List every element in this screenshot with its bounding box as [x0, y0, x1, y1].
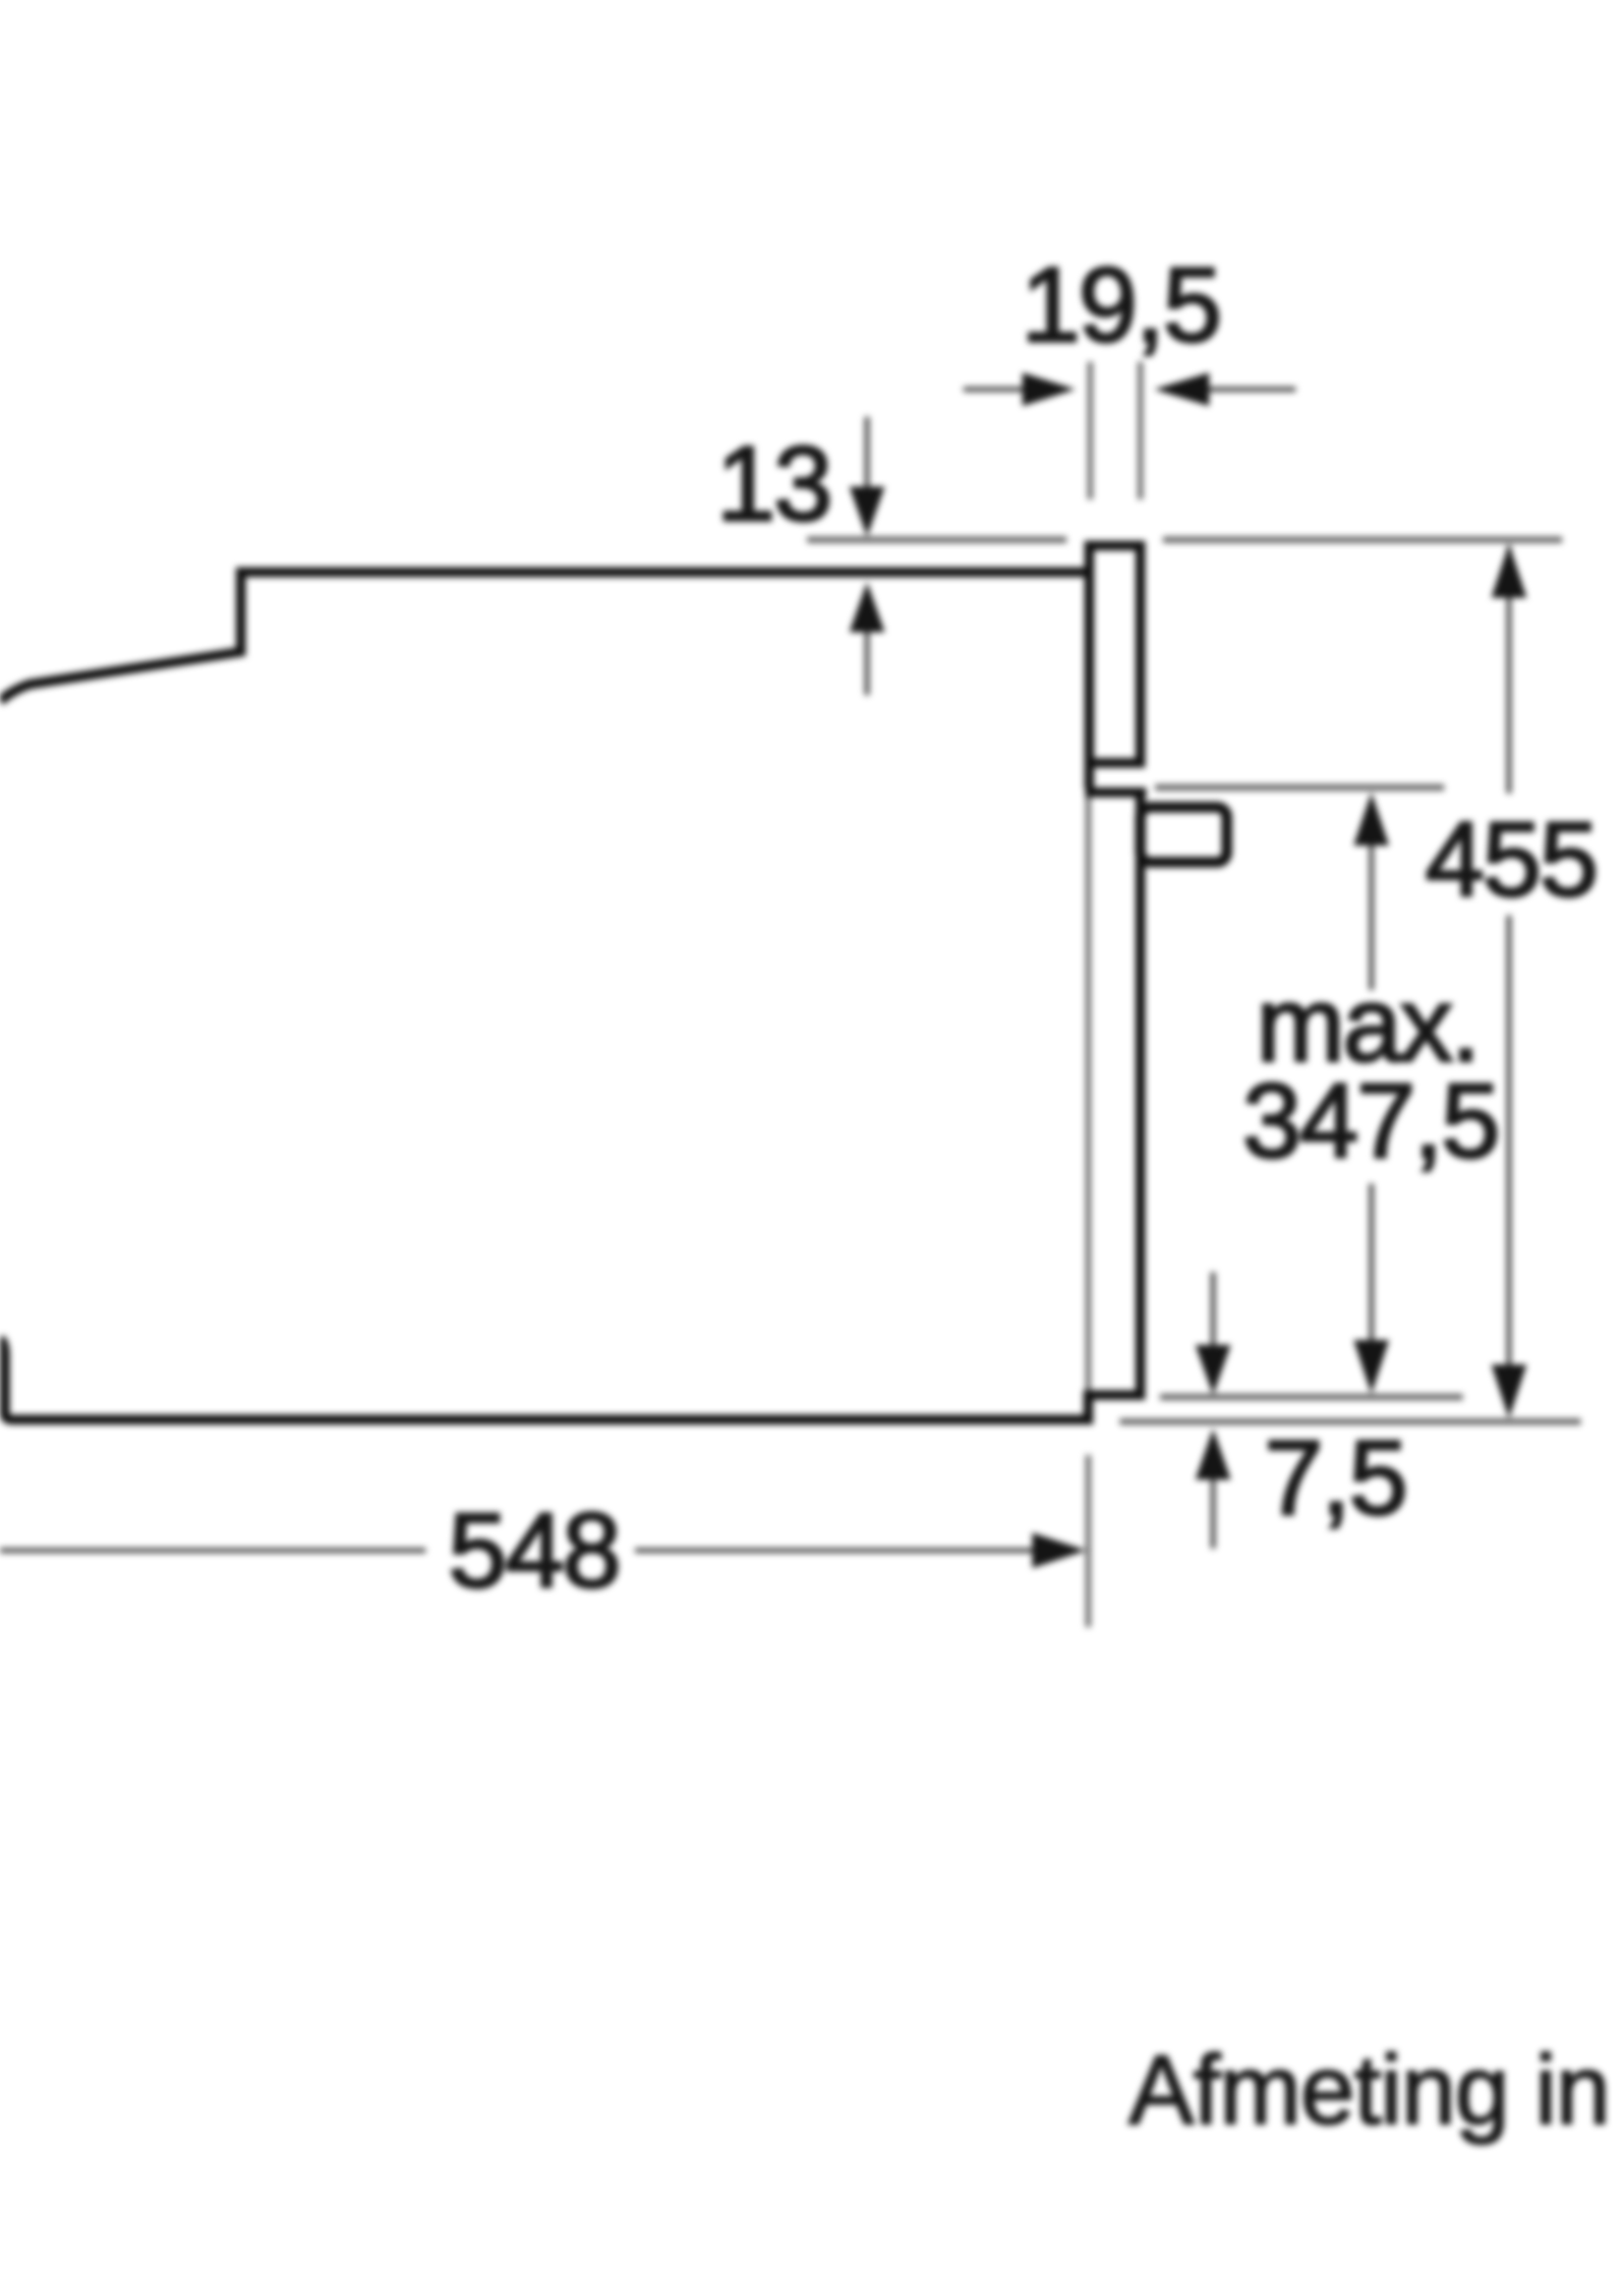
svg-text:Afmeting in: Afmeting in [1129, 2035, 1609, 2145]
svg-text:19,5: 19,5 [1021, 245, 1220, 364]
svg-text:13: 13 [717, 424, 831, 543]
svg-text:548: 548 [448, 1490, 619, 1609]
svg-text:455: 455 [1425, 799, 1596, 918]
svg-text:347,5: 347,5 [1243, 1061, 1498, 1180]
svg-text:7,5: 7,5 [1264, 1418, 1406, 1537]
